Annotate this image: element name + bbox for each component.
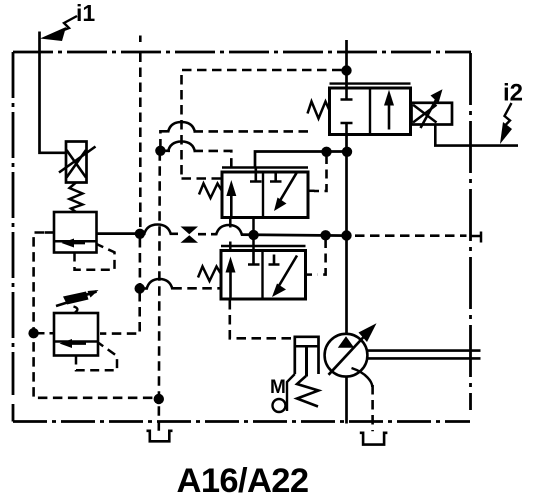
wire: pilot input line i1 (vertical then right into valve V1) [40, 32, 67, 153]
pilot line (dashed): spring pilot of V3 from node J9 with hop [140, 287, 148, 290]
pilot line (dashed): J7 down to right pilot of V3 [318, 239, 326, 275]
relief valve U2 (variable pilot relief, box with left arrow) [54, 313, 98, 356]
wire: relief valve left stub to node [36, 332, 54, 335]
V3 blocked port symbols [248, 251, 260, 265]
V2 left position: up arrow [230, 194, 233, 217]
node J4 (dot on main line) [342, 147, 352, 157]
machine boundary frame (dash-dot enclosure), top edge [13, 51, 471, 54]
wire: pump case drain curve [352, 368, 373, 387]
servo cylinder (pump displacement actuator) [295, 337, 319, 374]
proportional solenoid of V4 (box with X and arrow) [412, 103, 453, 125]
node J11 (dot at bottom pilot junction) [154, 394, 164, 404]
pressure compensator valve U1 (box with left arrow) [54, 212, 97, 253]
valve V1 (variable shutoff restrictor, box with X) [66, 142, 87, 183]
pilot line A (dashed) to spring of valve V4, with crossing hop [160, 131, 170, 148]
directional valve V2 (upper middle, 2-position proportional) [222, 166, 308, 168]
V4 left position: blocked ports [341, 88, 353, 100]
wire: compensator output to node on LS line [97, 232, 141, 235]
variable adjustment zigzag arrow of U2 [56, 301, 72, 306]
pilot line (dashed): left pilot bus from compensator stub down and along bottom [34, 233, 159, 398]
node J10 (dot on left pilot bus) [28, 328, 38, 338]
tank symbol T2 [360, 433, 388, 445]
node J3 (dot) [321, 147, 331, 157]
node J5 (dot at compensator output / x140) [135, 229, 145, 239]
pump return spring (zigzag) [297, 376, 319, 407]
V4 right position: up arrow [388, 103, 391, 130]
V3 left position: up arrow [229, 271, 232, 299]
leader arrow for i2 [505, 103, 512, 125]
V2 right position: throttled diagonal arrow [280, 173, 297, 202]
machine boundary frame, left edge [12, 52, 15, 395]
main pressure line (vertical x=346.5) [345, 40, 348, 88]
node J2 (dot at pilot junction x160,y151) [155, 146, 165, 156]
svg-text:A16/A22: A16/A22 [177, 462, 309, 499]
wire: compensator left pilot stub [45, 231, 55, 234]
svg-text:M: M [270, 377, 286, 398]
wire: V2 top port to main line (solid) [255, 152, 348, 169]
pilot line (dashed): relief valve vent loop [76, 343, 117, 371]
LS line (horizontal, y=234) with hops and orifice [140, 232, 146, 235]
orifice (fixed restrictor) [181, 227, 199, 235]
directional valve V3 (lower middle, 2-position proportional) [221, 245, 306, 247]
V3 right position: throttled diagonal arrow [279, 256, 298, 287]
pilot line (dashed): from main line node J1 left then down x=181.5 to spring of V2 [182, 70, 342, 179]
pilot line (dashed): case drain to tank T2 [371, 385, 374, 431]
pilot line (dashed): vertical line x=140 from top frame down to LS node [139, 36, 142, 43]
node J9 (dot x140 / spring pilot line) [135, 283, 145, 293]
frame tick at right end of LS line [471, 232, 482, 243]
machine boundary frame, bottom edge [13, 420, 470, 423]
wire: LS line solid run to main line [241, 235, 347, 236]
unloading valve V4 (top right, 2-position) [330, 82, 411, 84]
node J8 (dot on main line) [341, 230, 351, 240]
pilot line (dashed): V3 bottom to pump servo cylinder [230, 300, 294, 338]
pilot line (dashed): J3 down to right pilot of V2 [314, 155, 327, 191]
pump P1 (variable displacement) [325, 334, 368, 377]
wire: step line below cylinder [287, 374, 295, 411]
node J1 (dot on main line, top) [341, 65, 351, 75]
pilot line (dashed): vertical tank line x=159 from node J2 down to tank T1 [159, 151, 160, 431]
svg-text:i1: i1 [76, 0, 95, 26]
spring of V2 [199, 184, 222, 199]
spring of V4 [308, 102, 330, 119]
machine boundary frame, right edge [469, 53, 472, 410]
leader arrow for i1 [56, 16, 77, 33]
wire: i2 signal line from solenoid [435, 125, 518, 146]
pilot line (dashed): LS line continues right to frame tick [355, 234, 467, 237]
pilot line (dashed): compensator vent loop [75, 244, 115, 269]
drive shaft (double line) [366, 351, 480, 359]
svg-text:i2: i2 [503, 80, 523, 107]
wire: through stubs between V2 bottom and V3 top [229, 218, 232, 251]
node J6 (dot) [248, 230, 258, 240]
spring S1 (vertical zigzag between V1 and compensator) [70, 183, 83, 213]
V2 blocked port symbols [250, 168, 262, 182]
node J7 (dot) [320, 230, 330, 240]
spring of V3 [198, 267, 221, 282]
indicator circle O [273, 399, 286, 412]
pilot line B (dashed) to top port of valve V2, with crossing hop [166, 150, 171, 153]
tank symbol T1 [147, 431, 173, 442]
